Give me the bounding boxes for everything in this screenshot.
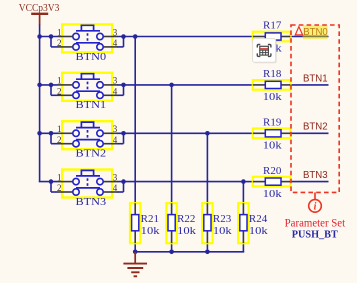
pin 3 <box>104 181 118 183</box>
wire: jog down to BTN0 pin2 <box>50 37 52 47</box>
pin 3 <box>104 84 118 86</box>
wire: node to resistor R20 <box>243 181 253 183</box>
wire: R19 to net label <box>290 132 328 134</box>
svg-text:1: 1 <box>57 76 62 86</box>
wire: vertical rail to R23 <box>206 133 208 203</box>
junction: pin3/pin4 join BTN2 <box>121 131 126 136</box>
pin 4 <box>104 191 118 193</box>
wire: to BTN2 pin2 <box>51 143 58 145</box>
pin 2 <box>58 191 73 193</box>
wire: to BTN0 pin2 <box>51 46 58 48</box>
resistor R21 <box>130 203 160 243</box>
junction: pin3/pin4 join BTN3 <box>121 179 126 184</box>
wire: BTN0 pin4 stub <box>117 46 124 48</box>
svg-text:3: 3 <box>113 27 118 37</box>
wire: R22 to ground bus <box>171 243 173 252</box>
wire: left power rail <box>39 37 41 182</box>
svg-text:BTN2: BTN2 <box>76 149 107 160</box>
wire: jog down to BTN2 pin2 <box>50 133 52 143</box>
push button BTN0 <box>57 24 118 62</box>
pin 4 <box>104 94 118 96</box>
junction: pin1/pin2 split BTN2 <box>49 131 54 136</box>
resistor R17 <box>253 20 291 55</box>
junction: row 1 rail tap <box>169 83 174 88</box>
resistor R22 <box>166 203 196 243</box>
pin 2 <box>58 46 73 48</box>
pin 1 <box>58 132 73 134</box>
callout stem <box>314 192 316 199</box>
svg-text:VCCp3V3: VCCp3V3 <box>19 2 60 14</box>
wire: node to resistor R18 <box>172 84 254 86</box>
junction: rail / BTN0 pin1 <box>37 34 42 39</box>
wire: vertical rail to R22 <box>171 85 173 203</box>
svg-text:4: 4 <box>113 38 118 48</box>
svg-text:10k: 10k <box>141 225 160 237</box>
junction: pin1/pin2 split BTN1 <box>49 83 54 88</box>
push button BTN1 <box>57 73 118 111</box>
svg-text:2: 2 <box>57 86 62 96</box>
wire: vertical rail to R21 <box>134 37 136 204</box>
svg-text:R22: R22 <box>177 213 195 225</box>
junction: ground bus 0 <box>133 250 138 255</box>
svg-text:2: 2 <box>57 135 62 145</box>
no-ERC marker triangle <box>295 27 302 35</box>
svg-text:BTN3: BTN3 <box>76 197 107 208</box>
wire: BTN2 pin3 to node <box>117 132 208 134</box>
wire: jog down to BTN3 pin2 <box>50 182 52 192</box>
svg-text:BTN0: BTN0 <box>303 27 328 38</box>
annotation dashed box <box>291 25 339 192</box>
wire: jog down to BTN1 pin2 <box>50 85 52 95</box>
wire: node to resistor R17 <box>135 36 253 38</box>
svg-text:R20: R20 <box>263 165 281 177</box>
wire: node to resistor R19 <box>207 132 253 134</box>
wire: to BTN1 pin2 <box>51 94 58 96</box>
svg-text:10k: 10k <box>213 225 232 237</box>
wire: BTN0 pin3 to node <box>117 36 136 38</box>
svg-text:10k: 10k <box>177 225 196 237</box>
junction: ground bus 2 <box>205 250 210 255</box>
svg-text:3: 3 <box>113 124 118 134</box>
power symbol VCCp3V3 <box>19 2 60 25</box>
wire: R24 to ground bus <box>242 243 244 252</box>
wire: R20 to net label <box>290 181 328 183</box>
wire: VCC stem to rail <box>39 25 41 37</box>
svg-text:4: 4 <box>113 86 118 96</box>
pin 3 <box>104 36 118 38</box>
svg-text:BTN1: BTN1 <box>76 100 107 111</box>
svg-text:R17: R17 <box>263 20 282 32</box>
wire: BTN2 pin4 riser <box>123 133 125 143</box>
svg-text:1: 1 <box>57 124 62 134</box>
wire: R23 to ground bus <box>206 243 208 252</box>
wire: R21 to ground bus <box>134 243 136 252</box>
wire: vertical rail to R24 <box>242 182 244 204</box>
overlay button with parameter grid icon <box>253 39 277 64</box>
svg-text:R24: R24 <box>249 213 268 225</box>
svg-text:1: 1 <box>57 172 62 182</box>
svg-text:R18: R18 <box>263 68 281 80</box>
wire: to BTN3 pin2 <box>51 191 58 193</box>
pin 3 <box>104 132 118 134</box>
junction: rail / BTN1 pin1 <box>37 83 42 88</box>
svg-text:10k: 10k <box>263 188 282 200</box>
junction: rail / BTN2 pin1 <box>37 131 42 136</box>
junction: ground bus 1 <box>169 250 174 255</box>
wire: BTN3 pin4 riser <box>123 182 125 192</box>
pin 4 <box>104 143 118 145</box>
svg-text:10k: 10k <box>249 225 268 237</box>
resistor R19 <box>253 117 291 152</box>
svg-text:1: 1 <box>57 27 62 37</box>
svg-text:4: 4 <box>113 183 118 193</box>
wire: R17 to net label <box>290 36 328 38</box>
wire: BTN3 pin4 stub <box>117 191 124 193</box>
wire: rail to BTN3 pin1 <box>39 181 58 183</box>
junction: pin3/pin4 join BTN0 <box>121 34 126 39</box>
ground <box>123 252 147 276</box>
push button BTN3 <box>57 170 118 208</box>
svg-text:BTN1: BTN1 <box>303 73 328 84</box>
svg-text:BTN3: BTN3 <box>303 170 328 181</box>
junction: row 2 rail tap <box>205 131 210 136</box>
junction: pin1/pin2 split BTN0 <box>49 34 54 39</box>
pin 1 <box>58 181 73 183</box>
svg-text:3: 3 <box>113 172 118 182</box>
pin 4 <box>104 46 118 48</box>
wire: BTN3 pin3 to node <box>117 181 244 183</box>
svg-text:3: 3 <box>113 76 118 86</box>
svg-text:i: i <box>314 201 317 212</box>
push button BTN2 <box>57 121 118 159</box>
wire: rail to BTN1 pin1 <box>39 84 58 86</box>
junction: pin3/pin4 join BTN1 <box>121 83 126 88</box>
wire: rail to BTN2 pin1 <box>39 132 58 134</box>
svg-text:PUSH_BT: PUSH_BT <box>292 228 339 240</box>
wire: ground bus <box>135 251 244 253</box>
pin 2 <box>58 143 73 145</box>
pin 1 <box>58 36 73 38</box>
junction: row 0 rail tap <box>133 34 138 39</box>
svg-text:4: 4 <box>113 135 118 145</box>
resistor R18 <box>253 68 291 103</box>
svg-text:R23: R23 <box>213 213 231 225</box>
svg-text:R19: R19 <box>263 117 281 129</box>
callout circle i <box>309 200 322 213</box>
svg-text:BTN0: BTN0 <box>76 52 107 63</box>
wire: BTN2 pin4 stub <box>117 143 124 145</box>
junction: pin1/pin2 split BTN3 <box>49 179 54 184</box>
wire: BTN1 pin4 riser <box>123 85 125 95</box>
wire: rail to BTN0 pin1 <box>39 36 58 38</box>
wire: BTN1 pin4 stub <box>117 94 124 96</box>
wire: R18 to net label <box>290 84 328 86</box>
resistor R24 <box>238 203 268 243</box>
pin 2 <box>58 94 73 96</box>
resistor R23 <box>202 203 232 243</box>
svg-text:10k: 10k <box>263 140 282 152</box>
svg-text:10k: 10k <box>263 91 282 103</box>
svg-text:2: 2 <box>57 38 62 48</box>
pin 1 <box>58 84 73 86</box>
svg-text:R21: R21 <box>141 213 159 225</box>
svg-text:BTN2: BTN2 <box>303 122 328 133</box>
wire: BTN0 pin4 riser <box>123 37 125 47</box>
svg-text:2: 2 <box>57 183 62 193</box>
resistor R20 <box>253 165 291 200</box>
junction: row 3 rail tap <box>241 179 246 184</box>
wire: BTN1 pin3 to node <box>117 84 172 86</box>
net label BTN0 (highlighted) <box>303 25 328 39</box>
svg-text:Parameter Set: Parameter Set <box>285 216 346 230</box>
